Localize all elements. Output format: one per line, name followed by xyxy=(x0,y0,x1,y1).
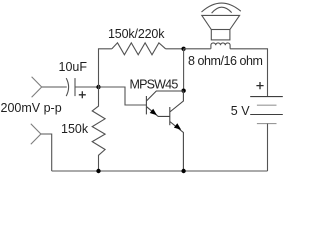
node: emitter rail junction dot xyxy=(181,169,185,173)
speaker LS1 cone xyxy=(202,15,240,29)
capacitor C1 curved plate xyxy=(66,78,68,96)
svg-text:5 V: 5 V xyxy=(231,104,250,118)
input terminal J1 (top, signal input) xyxy=(32,77,42,97)
node A junction dot (collector / speaker node) xyxy=(181,47,185,51)
wire battery bottom to ground rail xyxy=(267,124,269,171)
wire J2 to ground rail xyxy=(41,134,52,171)
capacitor C1 polarity + mark xyxy=(79,91,86,98)
wire voice coil to battery top xyxy=(230,49,267,97)
svg-text:150k/220k: 150k/220k xyxy=(108,27,165,41)
capacitor C1 straight plate xyxy=(74,78,76,96)
battery BT1 positive plate (top long) xyxy=(250,96,283,98)
wire J1 to capacitor xyxy=(42,86,67,88)
wire base node to Q1 base xyxy=(99,87,147,105)
svg-text:10uF: 10uF xyxy=(59,60,88,74)
speaker LS1 sound wave inner arc xyxy=(212,7,232,13)
battery + polarity mark xyxy=(256,82,263,89)
input terminal J2 (bottom, signal return) xyxy=(31,124,41,144)
node: base node junction dot xyxy=(96,85,100,89)
speaker LS1 magnet body xyxy=(211,30,230,40)
transistor Q2 (second half of MPSW45 darlington) xyxy=(170,91,184,171)
svg-text:200mV p-p: 200mV p-p xyxy=(1,101,62,115)
node: R2 bottom rail junction dot xyxy=(96,169,100,173)
battery BT1 long plate 2 xyxy=(250,114,283,116)
speaker LS1 sound wave outer arc xyxy=(202,3,241,12)
wire capacitor to base node xyxy=(75,86,99,88)
wire node A down to node B xyxy=(183,49,185,91)
svg-text:8 ohm/16 ohm: 8 ohm/16 ohm xyxy=(188,54,263,68)
wire R1 right lead to node A xyxy=(166,48,184,50)
transistor Q1 (first half of MPSW45 darlington) xyxy=(146,91,183,116)
resistor R1 150k/220k (feedback) xyxy=(112,43,166,55)
svg-text:150k: 150k xyxy=(61,122,89,136)
resistor R2 150k (bias to ground) xyxy=(92,87,105,171)
wire node A to voice coil xyxy=(184,48,211,50)
svg-text:MPSW45: MPSW45 xyxy=(130,78,179,92)
inductor L1 speaker voice coil xyxy=(211,43,230,49)
wire base node up to feedback resistor xyxy=(99,49,112,87)
ground rail wire (bottom) xyxy=(52,170,268,172)
node B junction dot (collectors tie point) xyxy=(181,89,185,93)
battery BT1 short plate 2 (negative) xyxy=(257,123,277,125)
battery BT1 short plate 1 xyxy=(257,104,277,106)
